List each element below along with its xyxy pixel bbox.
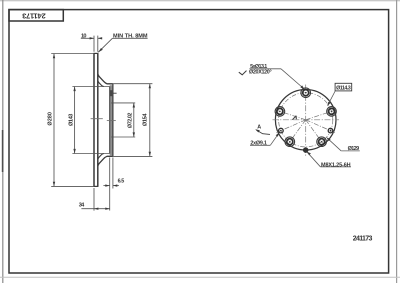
hat lower outer S-curve [98,156,113,166]
dim 34 line [81,208,109,210]
dim 280 line [53,54,55,186]
scan edge left dark segment [2,130,4,172]
svg-text:10: 10 [81,34,87,40]
bolt hole top countersink [301,88,311,98]
arrow min th [98,48,103,52]
svg-text:Ø143: Ø143 [68,114,74,126]
bolt hole upper-right countersink [327,107,337,117]
leader 2xO9.1 underline [250,144,270,146]
svg-text:Ø154: Ø154 [142,113,148,127]
leader M8 diagonal [307,152,320,167]
svg-text:241173: 241173 [22,11,46,20]
arrow O129 [326,137,330,141]
dim 10 extension left [93,36,95,52]
dim 10 line left tail [81,37,94,39]
svg-text:MIN TH. 8MM: MIN TH. 8MM [113,33,148,39]
dim 154 line [149,84,151,156]
svg-text:M8X1.25-6H: M8X1.25-6H [321,162,351,168]
hat upper inner S-curve [98,80,104,86]
leader O114.3 [328,91,336,105]
dim 10 extension right [97,36,99,52]
dim 72.02 extension bottom [111,136,135,138]
dimension graphics [51,36,152,211]
bolt hole upper-left bore [277,108,283,114]
dim 6.5 line right tail [113,185,119,187]
centerline horizontal [273,119,340,121]
bolt hole upper-right bore [329,108,335,114]
radial centerline to upper-right hole [306,110,337,120]
dim 72.02 line [133,103,135,137]
arrow 2xO9.1 [276,132,280,136]
dim 280 extension bottom [51,185,93,187]
scan edge right [396,0,398,283]
svg-text:Ø114.3: Ø114.3 [336,85,351,91]
small hole right O9.1 [328,128,333,133]
svg-text:A: A [257,124,261,130]
surface finish checkmark [239,71,247,75]
outer circle O129 [275,90,336,151]
arrowheads left view [53,37,151,210]
dim 10 line right tail [98,37,102,39]
radial centerline to lower-left hole [287,120,306,146]
stud tick [113,92,116,94]
svg-text:241173: 241173 [353,236,373,243]
arrow 10 left [90,37,94,39]
arrow 72.02 top [133,103,135,108]
dim 143 extension top [72,86,109,88]
leader 2xO9.1 diagonal [270,133,279,145]
arrow 6.5 left [105,184,109,186]
hat upper outer S-curve [98,74,113,84]
arrow O114.3 [327,102,330,107]
bolt hole section detail (stud) [110,90,113,96]
dim 6.5 line left tail [103,185,109,187]
dim 6.5 extension left [109,158,111,211]
small hole left O9.1 [279,128,284,133]
bolt hole lower-right countersink [317,137,327,147]
disc bottom edge [93,185,98,187]
svg-text:Ø20X120°: Ø20X120° [249,70,272,76]
radial centerline to lower-right hole [306,120,325,146]
svg-text:Ø72.02: Ø72.02 [128,113,134,129]
dim 154 extension bottom [113,155,152,157]
section centerline disc [91,118,103,120]
svg-text:2xØ9.1: 2xØ9.1 [250,141,267,147]
datum box O114.3 [335,83,352,91]
arrow 72.02 bottom [133,132,135,137]
arrow 154 bottom [149,152,151,157]
arrow 143 top [73,87,75,92]
mounting face right edge [112,84,114,157]
bolt hole upper-left countersink [275,107,285,117]
section arrow A [256,130,270,135]
dim 72.02 extension top [111,102,135,104]
bolt hole top bore [303,90,309,96]
section arrowhead A [255,129,260,132]
arrow 143 bottom [73,149,75,154]
arrow 280 bottom [53,182,55,187]
svg-text:34: 34 [79,202,85,208]
min th leader horizontal [112,37,147,39]
arrow 280 top [53,54,55,59]
dim 143 extension bottom [72,153,109,155]
scan edge bottom [0,276,400,278]
dim 143 line [74,87,76,154]
mounting plate left edge [109,87,111,154]
bolt circle O114.3 dash-dot [279,93,333,147]
dim 6.5 extension right [112,158,114,189]
leader O129 underline [341,150,360,152]
arrow 5xO13.1 [300,85,304,89]
bolt hole center dots [279,92,332,143]
thread hole M8 [303,148,308,153]
svg-text:Ø280: Ø280 [48,112,54,126]
disc left face [93,53,95,186]
centerline vertical [305,85,307,157]
svg-text:6.5: 6.5 [118,178,125,184]
radial centerline to left O9.1 hole [276,120,305,133]
small section mark near center [292,116,296,120]
title box top-left [9,10,63,21]
min th leader diagonal [98,38,112,52]
dimension texts left view [48,33,149,208]
disc right face [97,53,99,186]
hat lower inner S-curve [98,154,104,160]
arrow 6.5 right [113,184,117,186]
scan edge left [2,0,4,283]
disc top edge [93,52,98,54]
leader M8 underline [320,166,351,168]
section centerline hub [107,120,116,122]
arrow 154 top [149,84,151,89]
dim 280 extension top [51,53,93,55]
leader 5xO13.1 diagonal [281,69,304,89]
arrow 34 right [105,208,109,210]
dim 154 extension top [113,83,152,85]
bolt hole lower-left countersink [285,137,295,147]
arrow 34 left [94,208,98,210]
arrow 10 right [98,37,102,39]
radial centerline to upper-left hole [275,110,306,120]
scan edge top [0,0,400,2]
bolt hole lower-right bore [319,139,325,145]
arrow M8 [307,152,311,156]
radial centerline to right O9.1 hole [306,120,335,133]
leader 5xO13.1 underline [249,68,281,70]
bolt hole lower-left bore [287,139,293,145]
mounting plate hatched band [110,85,113,155]
leader O129 diagonal [328,138,342,151]
dim 34 extension left [93,188,95,211]
